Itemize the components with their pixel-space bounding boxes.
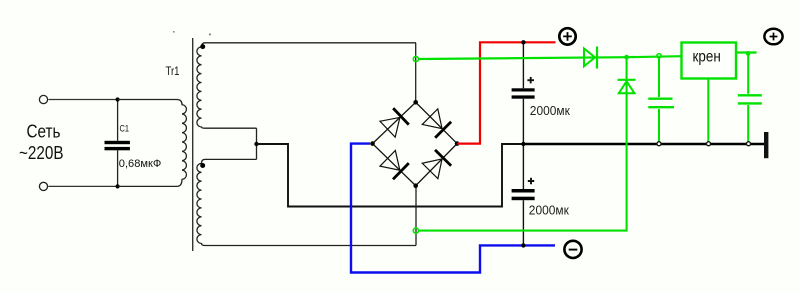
transformer core <box>192 38 194 251</box>
transformer lower secondary winding <box>197 159 416 245</box>
ring green tap bottom <box>413 228 418 233</box>
node bridge top <box>413 100 418 105</box>
wire top input <box>49 99 118 101</box>
transformer upper secondary winding <box>197 43 416 128</box>
node bridge right <box>455 141 460 146</box>
capacitor 2000мк lower plates <box>512 189 535 193</box>
diode VD4 (bottom to right) <box>422 150 451 179</box>
node center tap junction <box>254 142 258 146</box>
capacitor C1 plates <box>105 141 130 144</box>
phase dot upper secondary <box>200 44 205 49</box>
capacitor 2000мк upper plates <box>512 88 535 91</box>
terminal input top <box>39 95 47 103</box>
diode D6 vertical (cathode up) <box>618 79 636 81</box>
terminal input bottom <box>39 182 47 190</box>
plus sign cap upper <box>527 77 534 83</box>
svg-text:Сеть: Сеть <box>27 122 61 142</box>
node output junction green <box>746 51 751 56</box>
capacitor filter green plates <box>648 97 672 99</box>
ring green rail tap <box>657 54 661 58</box>
svg-text:2000мк: 2000мк <box>530 104 570 118</box>
svg-text:2000мк: 2000мк <box>529 204 569 218</box>
speck artifact left <box>173 31 175 33</box>
wire green top rail <box>419 56 682 59</box>
svg-text:крен: крен <box>693 48 721 65</box>
node C1 top junction <box>116 97 120 101</box>
regulator крен box <box>682 43 737 79</box>
wire bottom secondary to bridge <box>415 186 417 246</box>
wire red positive rail <box>457 42 555 143</box>
plus sign cap lower <box>528 178 534 184</box>
wire top secondary to bridge <box>415 43 417 103</box>
node regulator ground on rail <box>707 142 711 146</box>
ring rail output cap <box>747 142 751 146</box>
node green junction <box>624 55 629 60</box>
terminal plus regulator output <box>764 29 782 45</box>
wire zener branch and green bottom rail <box>419 57 627 230</box>
wire secondary center tap vertical <box>256 128 258 159</box>
capacitor output green plates <box>738 94 762 96</box>
node cap lower bottom junction <box>521 243 525 247</box>
node bridge bottom <box>413 183 418 188</box>
node cap lower mid junction <box>521 142 525 146</box>
ring green tap top <box>413 56 418 61</box>
svg-text:C1: C1 <box>120 124 130 134</box>
svg-text:0,68мкФ: 0,68мкФ <box>119 158 162 170</box>
diode VD2 (top to right) <box>422 109 451 138</box>
diode VD1 (left to top) <box>380 108 409 137</box>
capacitor C1 leads <box>117 100 119 187</box>
capacitor 2000мк lower leads <box>522 144 524 245</box>
node C1 bottom junction <box>116 184 120 188</box>
capacitor 2000мк upper leads <box>522 42 524 144</box>
transformer Tr1 primary winding <box>118 100 187 187</box>
speck artifact right <box>209 34 211 36</box>
ring rail bottom left <box>657 142 661 146</box>
capacitor output green leads <box>747 53 749 142</box>
wire regulator ground pin <box>707 79 709 143</box>
phase dot lower secondary <box>200 163 205 168</box>
wire regulator output <box>736 51 757 53</box>
terminal plus main <box>559 28 575 44</box>
node bridge left <box>370 141 375 146</box>
ground end bar <box>764 132 768 158</box>
diode D5 green series <box>584 49 595 67</box>
node cap upper top junction <box>521 40 525 44</box>
wire blue negative rail <box>351 144 555 273</box>
wire mid black rail <box>523 143 764 146</box>
diode VD3 (left to bottom) <box>380 150 409 179</box>
svg-text:Tr1: Tr1 <box>166 64 180 78</box>
terminal minus main <box>564 241 581 258</box>
wire center tap to mid rail <box>257 144 524 207</box>
svg-text:~220В: ~220В <box>19 143 64 163</box>
wire bottom input <box>49 185 118 187</box>
capacitor filter green leads <box>658 56 660 143</box>
bridge rectifier edges <box>373 102 458 185</box>
